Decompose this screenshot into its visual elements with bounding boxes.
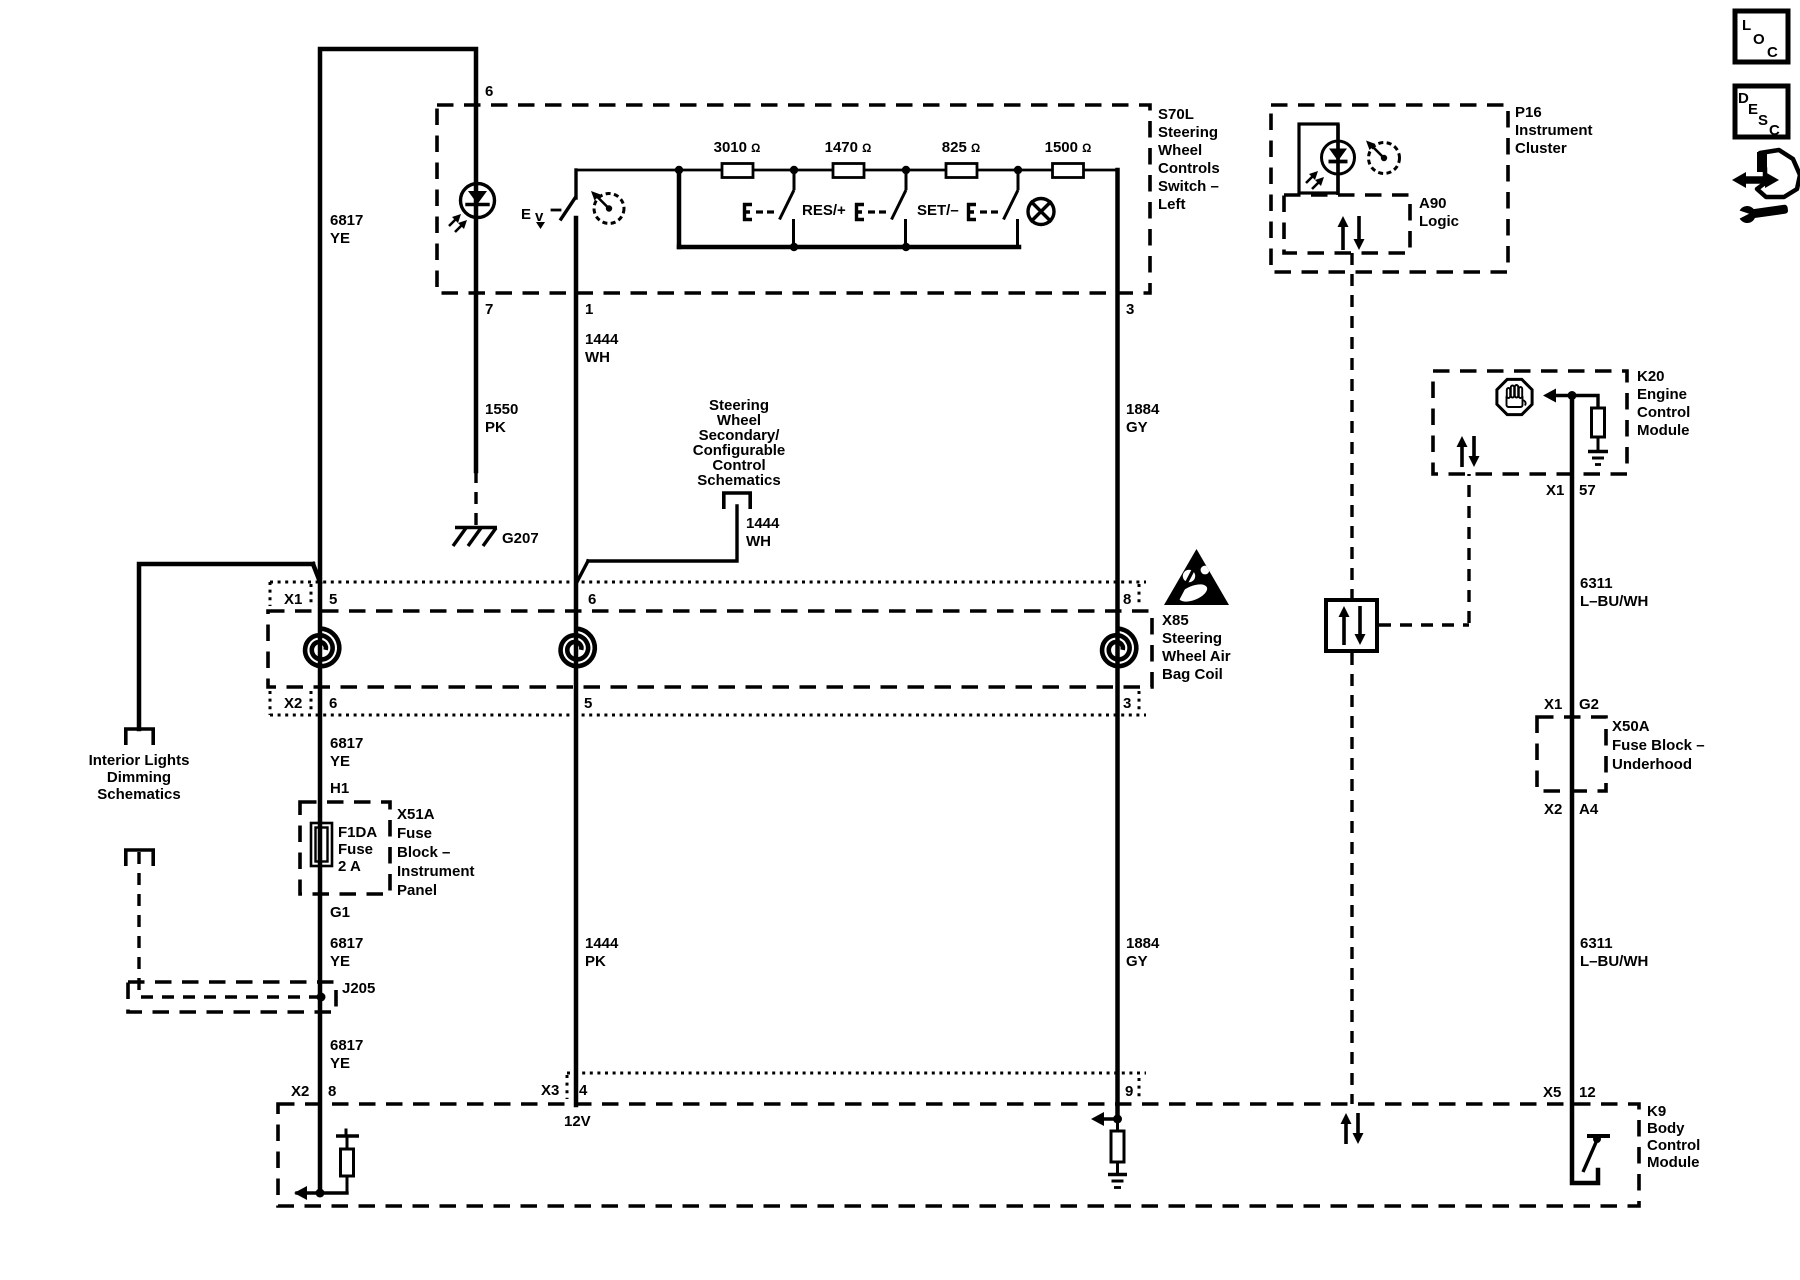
svg-text:H1: H1 (330, 780, 349, 797)
svg-text:Interior Lights: Interior Lights (89, 752, 190, 769)
svg-text:6311: 6311 (1580, 575, 1613, 592)
svg-text:Control: Control (1647, 1137, 1700, 1154)
svg-text:Wheel: Wheel (1158, 142, 1202, 159)
svg-text:Instrument: Instrument (397, 863, 475, 880)
svg-text:Block –: Block – (397, 844, 450, 861)
svg-text:K20: K20 (1637, 368, 1665, 385)
svg-text:6: 6 (485, 83, 493, 100)
svg-text:X85: X85 (1162, 612, 1189, 629)
svg-text:8: 8 (1123, 591, 1131, 608)
svg-text:L–BU/WH: L–BU/WH (1580, 593, 1648, 610)
svg-text:3: 3 (1123, 695, 1131, 712)
svg-text:PK: PK (485, 419, 506, 436)
svg-text:A90: A90 (1419, 195, 1447, 212)
svg-text:6: 6 (329, 695, 337, 712)
svg-text:X2: X2 (1544, 801, 1562, 818)
svg-text:6817: 6817 (330, 212, 363, 229)
svg-text:X2: X2 (284, 695, 302, 712)
svg-text:G207: G207 (502, 530, 539, 547)
svg-text:Underhood: Underhood (1612, 756, 1692, 773)
svg-text:6817: 6817 (330, 735, 363, 752)
svg-text:X51A: X51A (397, 806, 435, 823)
svg-text:X50A: X50A (1612, 718, 1650, 735)
svg-text:X1: X1 (1546, 482, 1564, 499)
svg-text:Control: Control (1637, 404, 1690, 421)
svg-text:G2: G2 (1579, 696, 1599, 713)
svg-text:5: 5 (329, 591, 337, 608)
svg-text:Instrument: Instrument (1515, 122, 1593, 139)
svg-text:S70L: S70L (1158, 106, 1194, 123)
svg-text:Bag Coil: Bag Coil (1162, 666, 1223, 683)
svg-text:G1: G1 (330, 904, 350, 921)
svg-text:Cluster: Cluster (1515, 140, 1567, 157)
svg-text:PK: PK (585, 953, 606, 970)
svg-text:X1: X1 (284, 591, 302, 608)
svg-text:Fuse: Fuse (338, 841, 373, 858)
svg-text:Fuse: Fuse (397, 825, 432, 842)
svg-text:S: S (1758, 112, 1768, 129)
svg-text:Wheel Air: Wheel Air (1162, 648, 1231, 665)
svg-text:Steering: Steering (1158, 124, 1218, 141)
svg-text:J205: J205 (342, 980, 375, 997)
svg-text:Module: Module (1647, 1154, 1700, 1171)
svg-text:1444: 1444 (746, 515, 780, 532)
svg-text:GY: GY (1126, 419, 1148, 436)
svg-text:9: 9 (1125, 1083, 1133, 1100)
svg-text:Schematics: Schematics (697, 472, 780, 489)
svg-text:C: C (1769, 122, 1780, 139)
svg-text:C: C (1767, 44, 1778, 61)
svg-text:12V: 12V (564, 1113, 591, 1130)
svg-text:1444: 1444 (585, 935, 619, 952)
svg-text:X5: X5 (1543, 1084, 1561, 1101)
svg-text:4: 4 (579, 1082, 588, 1099)
svg-text:1884: 1884 (1126, 401, 1160, 418)
svg-text:6: 6 (588, 591, 596, 608)
svg-text:Steering: Steering (1162, 630, 1222, 647)
svg-text:7: 7 (485, 301, 493, 318)
svg-text:P16: P16 (1515, 104, 1542, 121)
svg-text:WH: WH (746, 533, 771, 550)
svg-text:6817: 6817 (330, 935, 363, 952)
svg-text:F1DA: F1DA (338, 824, 377, 841)
svg-text:5: 5 (584, 695, 592, 712)
svg-text:Left: Left (1158, 196, 1186, 213)
svg-text:57: 57 (1579, 482, 1596, 499)
svg-text:X2: X2 (291, 1083, 309, 1100)
svg-text:E: E (1748, 101, 1758, 118)
svg-text:2 A: 2 A (338, 858, 361, 875)
svg-text:1884: 1884 (1126, 935, 1160, 952)
svg-text:Module: Module (1637, 422, 1690, 439)
svg-text:K9: K9 (1647, 1103, 1666, 1120)
svg-text:X1: X1 (1544, 696, 1562, 713)
svg-text:O: O (1753, 31, 1765, 48)
svg-text:1: 1 (585, 301, 593, 318)
svg-text:Controls: Controls (1158, 160, 1220, 177)
svg-text:1550: 1550 (485, 401, 518, 418)
svg-text:GY: GY (1126, 953, 1148, 970)
svg-text:Schematics: Schematics (97, 786, 180, 803)
svg-text:A4: A4 (1579, 801, 1599, 818)
svg-text:Body: Body (1647, 1120, 1685, 1137)
svg-text:6817: 6817 (330, 1037, 363, 1054)
svg-text:Logic: Logic (1419, 213, 1459, 230)
svg-text:Switch –: Switch – (1158, 178, 1219, 195)
svg-text:Fuse Block –: Fuse Block – (1612, 737, 1705, 754)
svg-text:YE: YE (330, 1055, 350, 1072)
svg-text:12: 12 (1579, 1084, 1596, 1101)
svg-text:L–BU/WH: L–BU/WH (1580, 953, 1648, 970)
svg-text:8: 8 (328, 1083, 336, 1100)
svg-text:1444: 1444 (585, 331, 619, 348)
svg-text:X3: X3 (541, 1082, 559, 1099)
svg-text:Panel: Panel (397, 882, 437, 899)
svg-text:6311: 6311 (1580, 935, 1613, 952)
svg-text:WH: WH (585, 349, 610, 366)
svg-text:Engine: Engine (1637, 386, 1687, 403)
svg-text:YE: YE (330, 953, 350, 970)
svg-text:SET/–: SET/– (917, 202, 959, 219)
svg-text:RES/+: RES/+ (802, 202, 846, 219)
svg-text:YE: YE (330, 230, 350, 247)
svg-text:L: L (1742, 17, 1751, 34)
svg-text:YE: YE (330, 753, 350, 770)
svg-text:E: E (521, 206, 531, 223)
svg-text:3: 3 (1126, 301, 1134, 318)
svg-text:Dimming: Dimming (107, 769, 171, 786)
